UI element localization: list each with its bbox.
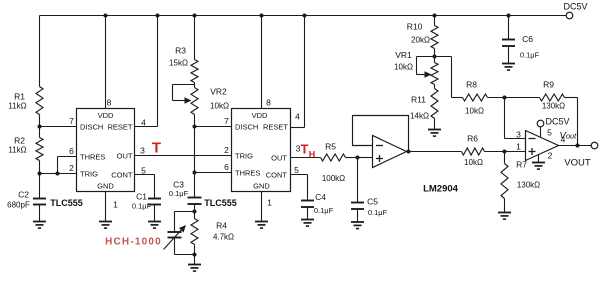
svg-text:0.1μF: 0.1μF — [368, 208, 388, 217]
pin 7 label — [224, 116, 229, 126]
svg-text:T: T — [152, 140, 161, 157]
svg-text:3: 3 — [516, 130, 521, 140]
op-amp U3B LM2904 — [516, 130, 558, 161]
potentiometer VR1 10k — [394, 50, 438, 85]
label HCH-1000 (red) — [105, 237, 162, 248]
svg-text:8: 8 — [107, 98, 112, 108]
resistor R4 4.7k — [191, 212, 234, 245]
wire feedback down to output — [577, 98, 579, 146]
pin 4 RESET1 wire to rail — [135, 16, 158, 128]
ground below R4 — [188, 265, 201, 272]
wire R10 to node — [434, 49, 436, 57]
capacitor C6 0.1uF — [502, 16, 540, 60]
wire rail corner to R1 — [39, 16, 41, 87]
wire R4 bottom / bracket — [175, 245, 195, 255]
wire node to THRES2 node (crosses OUT1 line) — [194, 127, 196, 173]
svg-text:2: 2 — [224, 145, 229, 155]
node THRES2 — [193, 171, 197, 175]
ground below C5 — [351, 209, 364, 229]
svg-text:R5: R5 — [325, 142, 336, 152]
node RESET2 on rail — [303, 14, 307, 18]
svg-text:C6: C6 — [522, 34, 533, 44]
svg-text:R9: R9 — [543, 80, 554, 90]
node op-amp1 output — [407, 150, 411, 154]
svg-text:5: 5 — [294, 165, 299, 175]
svg-text:0.1μF: 0.1μF — [314, 206, 334, 215]
pin 8 VDD2 wire — [262, 16, 272, 109]
svg-text:10kΩ: 10kΩ — [394, 63, 413, 72]
svg-text:4: 4 — [295, 112, 300, 122]
node DISCH2 — [193, 125, 197, 129]
node R8/R9/-in — [503, 96, 507, 100]
svg-text:C3: C3 — [173, 180, 184, 190]
pin 7 label — [69, 116, 74, 126]
capacitor C2 680pF — [7, 174, 46, 210]
svg-text:RESET: RESET — [107, 122, 132, 131]
ground below C1 — [148, 205, 161, 229]
svg-text:1: 1 — [113, 200, 118, 210]
node R3 on rail — [193, 14, 197, 18]
svg-text:R2: R2 — [14, 136, 25, 146]
svg-text:HCH-1000: HCH-1000 — [105, 237, 162, 248]
pin 5 CONT2 wire — [291, 165, 308, 201]
node VDD1 on rail — [104, 14, 108, 18]
wire THRES1 branch — [58, 157, 77, 174]
node C6 on rail — [507, 14, 511, 18]
resistor R8 10k — [463, 80, 488, 116]
op-amp U3A LM2904 — [373, 136, 407, 168]
capacitor C3 0.1uF — [169, 173, 202, 205]
ground below C2 — [33, 205, 46, 229]
ground below R11 — [428, 130, 441, 137]
wire node to op-amp + input — [358, 157, 373, 159]
svg-text:15kΩ: 15kΩ — [169, 59, 188, 68]
wire node to + input — [505, 151, 526, 153]
label TH (red) — [301, 142, 316, 160]
resistor R3 15k — [169, 46, 198, 83]
resistor R11 14k — [410, 85, 438, 121]
node RESET1 on rail — [156, 14, 160, 18]
wire R6 to node — [485, 151, 505, 153]
svg-text:C5: C5 — [367, 197, 378, 207]
ground below U2 — [255, 222, 268, 229]
svg-text:2: 2 — [548, 151, 553, 161]
svg-text:Vout: Vout — [560, 131, 578, 142]
wire divider tap to R8 — [435, 57, 463, 98]
wire THRES2 — [195, 172, 232, 174]
label T (red) — [152, 140, 161, 157]
wire R5 to node — [346, 157, 358, 159]
svg-text:7: 7 — [69, 116, 74, 126]
svg-text:CONT: CONT — [266, 170, 288, 179]
svg-text:DISCH: DISCH — [80, 122, 103, 131]
svg-text:C4: C4 — [315, 192, 326, 202]
label TLC555 (U2) — [204, 198, 237, 208]
wire op-amp1 output to R6 — [407, 151, 462, 153]
svg-text:T: T — [301, 142, 309, 157]
wire TRIG1 — [40, 173, 77, 175]
wire feedback op-amp1 (output to - input) — [353, 116, 409, 152]
svg-text:LM2904: LM2904 — [423, 184, 459, 195]
svg-text:6: 6 — [69, 146, 74, 156]
wire C3 to parallel node — [194, 204, 196, 212]
svg-text:THRES: THRES — [235, 168, 260, 177]
wire R8 to node — [488, 97, 505, 99]
pin 5 power DC5V op-amp2 — [537, 117, 569, 138]
svg-text:OUT: OUT — [117, 151, 133, 160]
pin 1 GND1 wire — [106, 192, 119, 222]
resistor R5 100k — [321, 142, 346, 184]
pin 5 CONT1 wire — [135, 166, 155, 199]
svg-text:4.7kΩ: 4.7kΩ — [213, 233, 234, 242]
svg-text:10kΩ: 10kΩ — [464, 158, 483, 167]
svg-text:VDD: VDD — [98, 111, 114, 120]
ground below U1 — [99, 222, 112, 229]
resistor R7 130k — [501, 152, 540, 199]
svg-text:680pF: 680pF — [7, 201, 30, 210]
node R5/C5/+in — [356, 156, 360, 160]
svg-text:130kΩ: 130kΩ — [517, 181, 540, 190]
wire VR2 to DISCH2 node — [194, 115, 196, 127]
svg-text:R4: R4 — [216, 221, 227, 231]
resistor R9 130k feedback — [505, 80, 578, 111]
wire to ground — [194, 255, 196, 265]
node R1/R2/DISCH1 — [38, 125, 42, 129]
wire R2 to node — [39, 161, 41, 174]
pin 2 label — [224, 145, 229, 155]
wire DISCH1 — [40, 126, 77, 128]
svg-text:VR1: VR1 — [395, 50, 412, 60]
capacitor C1 0.1uF — [132, 192, 161, 211]
resistor R6 10k — [462, 134, 485, 168]
svg-text:DC5V: DC5V — [563, 2, 587, 12]
node THRES1 branch — [56, 172, 60, 176]
terminal DC5V top-right — [563, 2, 587, 19]
wire R7 to ground — [504, 199, 506, 213]
svg-text:C2: C2 — [18, 190, 29, 200]
node R10 on rail — [433, 14, 437, 18]
wire parallel bracket top — [175, 212, 195, 233]
ground below C6 — [502, 46, 515, 70]
svg-text:DISCH: DISCH — [235, 122, 258, 131]
svg-text:11kΩ: 11kΩ — [8, 102, 26, 111]
pin 3 OUT1 wire to TRIG2 — [135, 146, 232, 156]
svg-text:5: 5 — [547, 128, 552, 138]
svg-text:TLC555: TLC555 — [50, 198, 83, 208]
terminal VOUT — [564, 142, 597, 168]
node R10/VR1/wiper — [433, 55, 437, 59]
node C3 bottom — [193, 210, 197, 214]
wire op-amp2 output — [559, 145, 592, 147]
svg-text:4: 4 — [141, 118, 146, 128]
ground below R7 — [498, 213, 511, 220]
svg-text:7: 7 — [224, 116, 229, 126]
svg-text:2: 2 — [69, 163, 74, 173]
node R4/sensor junction — [193, 253, 197, 257]
wire R1 to node — [39, 115, 41, 127]
svg-text:1: 1 — [267, 198, 272, 208]
resistor R2 11k — [8, 127, 43, 161]
svg-text:TRIG: TRIG — [235, 151, 253, 160]
svg-text:R6: R6 — [467, 134, 478, 144]
wire node down to - input — [505, 98, 526, 139]
pin 6 label — [224, 162, 229, 172]
node R2/C2/TRIG1 — [38, 172, 42, 176]
pin 3 OUT2 wire — [291, 144, 321, 158]
svg-text:1: 1 — [516, 142, 521, 152]
svg-text:0.1μF: 0.1μF — [169, 189, 189, 198]
IC U1 TLC555 body — [77, 109, 135, 192]
svg-text:8: 8 — [266, 98, 271, 108]
svg-text:130kΩ: 130kΩ — [542, 102, 565, 111]
svg-text:TLC555: TLC555 — [204, 198, 237, 208]
pin 2 label — [69, 163, 74, 173]
pin 2 ground op-amp2 — [532, 151, 553, 170]
svg-text:R3: R3 — [175, 46, 186, 56]
power rail DC5V top — [40, 15, 567, 17]
svg-text:THRES: THRES — [80, 152, 105, 161]
ground below C4 — [301, 207, 314, 226]
svg-text:TRIG: TRIG — [80, 169, 98, 178]
potentiometer VR2 10k — [173, 85, 229, 115]
resistor R1 11k — [8, 87, 43, 115]
wire DISCH2 — [195, 126, 232, 128]
svg-text:11kΩ: 11kΩ — [8, 146, 26, 155]
capacitor C5 0.1uF — [351, 158, 388, 218]
svg-text:5: 5 — [141, 166, 146, 176]
pin 1 GND2 wire — [262, 192, 273, 222]
wire R11 to ground — [434, 119, 436, 130]
svg-text:RESET: RESET — [263, 122, 288, 131]
svg-text:3: 3 — [140, 146, 145, 156]
svg-text:R1: R1 — [14, 92, 25, 102]
svg-text:10kΩ: 10kΩ — [210, 102, 229, 111]
svg-text:R8: R8 — [466, 80, 477, 90]
svg-text:GND: GND — [97, 182, 114, 191]
svg-text:0.1μF: 0.1μF — [520, 51, 540, 60]
svg-text:100kΩ: 100kΩ — [322, 174, 345, 183]
pin 8 VDD1 wire — [106, 16, 112, 109]
svg-text:VDD: VDD — [252, 111, 268, 120]
wire rail to R3 — [194, 16, 196, 60]
svg-text:10kΩ: 10kΩ — [465, 107, 484, 116]
node R6/R7/+in — [503, 150, 507, 154]
capacitor C4 0.1uF — [301, 192, 334, 215]
svg-text:CONT: CONT — [111, 170, 133, 179]
pin 4 RESET2 wire to rail — [291, 16, 305, 128]
label Vout pin4 — [560, 131, 578, 145]
svg-text:OUT: OUT — [271, 153, 287, 162]
node VDD2 on rail — [260, 14, 264, 18]
svg-text:R10: R10 — [407, 22, 423, 32]
svg-text:6: 6 — [224, 162, 229, 172]
pin 6 label — [69, 146, 74, 156]
svg-text:H: H — [309, 150, 316, 160]
svg-text:20kΩ: 20kΩ — [411, 36, 430, 45]
resistor R10 20k — [407, 16, 438, 49]
svg-text:VOUT: VOUT — [564, 158, 591, 169]
label LM2904 — [423, 184, 459, 195]
svg-text:DC5V: DC5V — [546, 117, 570, 127]
node output/feedback — [576, 144, 580, 148]
sensor HCH-1000 variable capacitor — [164, 225, 187, 255]
svg-text:14kΩ: 14kΩ — [410, 112, 429, 121]
svg-text:0.1μF: 0.1μF — [132, 202, 152, 211]
svg-text:VR2: VR2 — [210, 87, 227, 97]
svg-text:R11: R11 — [411, 95, 426, 105]
IC U2 TLC555 body — [232, 109, 291, 192]
svg-text:GND: GND — [253, 182, 270, 191]
wire R3 to VR2 — [194, 83, 196, 88]
svg-text:C1: C1 — [136, 192, 147, 202]
label TLC555 (U1) — [50, 198, 83, 208]
